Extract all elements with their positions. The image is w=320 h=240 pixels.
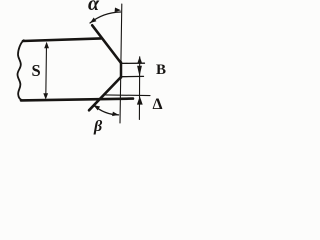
extension line Delta top	[106, 94, 151, 97]
arrowhead B bottom (down)	[137, 66, 142, 77]
blade bottom bevel (extended below for angle beta)	[89, 77, 121, 110]
dimension line B / Delta vertical	[138, 57, 140, 120]
label beta	[94, 118, 102, 136]
vertical extension line through tip	[120, 4, 122, 123]
blade flat tip edge	[120, 62, 123, 77]
blade top edge	[23, 38, 101, 41]
extension line B top	[121, 62, 145, 64]
label alpha	[88, 0, 99, 16]
arrowhead Delta (up)	[137, 96, 143, 104]
blade bottom edge (extended right as reference line)	[21, 99, 133, 101]
arrowhead beta arc right	[112, 112, 119, 117]
blade break line (left wavy edge)	[18, 40, 24, 100]
arrowhead S top	[44, 42, 49, 48]
arrowhead beta arc left	[94, 105, 101, 110]
arrowhead S bottom	[43, 93, 48, 99]
blade top bevel (extended above for angle alpha)	[92, 25, 121, 63]
angle beta arc	[94, 105, 119, 115]
label B	[156, 62, 166, 79]
extension line B bottom	[121, 75, 144, 77]
label Delta	[153, 96, 163, 114]
label S	[32, 61, 41, 81]
arrowhead alpha arc right	[115, 8, 121, 13]
arrowhead alpha arc left	[90, 18, 96, 24]
dimension line S vertical	[45, 44, 48, 97]
angle alpha arc	[90, 12, 121, 23]
arrowhead B top (above line)	[137, 56, 142, 63]
